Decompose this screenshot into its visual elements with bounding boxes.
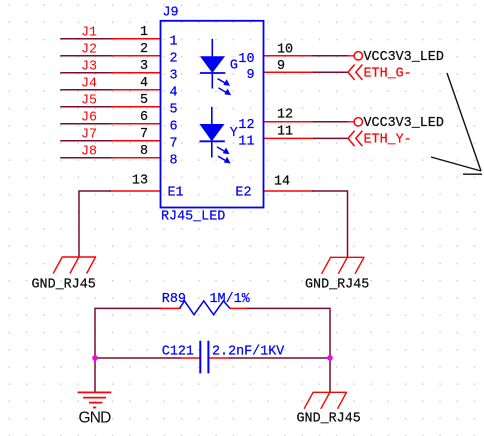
svg-text:12: 12 [238,118,254,133]
svg-text:11: 11 [238,134,254,149]
svg-text:1: 1 [140,25,148,40]
svg-text:8: 8 [170,153,178,168]
svg-text:13: 13 [132,174,148,189]
svg-text:8: 8 [140,144,148,159]
svg-text:E1: E1 [168,186,184,201]
svg-text:J1: J1 [81,26,97,41]
svg-text:4: 4 [170,85,178,100]
svg-text:7: 7 [140,127,148,142]
svg-text:ETH_Y-: ETH_Y- [364,133,412,148]
svg-text:GND_RJ45: GND_RJ45 [32,277,96,292]
svg-text:5: 5 [140,93,148,108]
svg-text:GND_RJ45: GND_RJ45 [305,277,369,292]
svg-text:VCC3V3_LED: VCC3V3_LED [364,116,444,131]
svg-text:RJ45_LED: RJ45_LED [161,209,225,224]
svg-text:2: 2 [170,51,178,66]
svg-text:4: 4 [140,76,148,91]
svg-text:9: 9 [246,68,254,83]
svg-text:E2: E2 [235,186,251,201]
svg-text:6: 6 [140,110,148,125]
svg-text:VCC3V3_LED: VCC3V3_LED [364,50,444,65]
svg-text:9: 9 [277,59,285,74]
svg-text:2.2nF/1KV: 2.2nF/1KV [212,345,284,360]
svg-text:2: 2 [140,42,148,57]
svg-text:14: 14 [274,175,290,190]
svg-text:6: 6 [170,119,178,134]
svg-text:J7: J7 [81,128,97,143]
svg-text:C121: C121 [162,345,194,360]
svg-text:1: 1 [170,34,178,49]
svg-text:10: 10 [238,52,254,67]
svg-text:J2: J2 [81,43,97,58]
svg-text:J4: J4 [81,77,97,92]
svg-text:GND: GND [79,409,112,426]
svg-text:7: 7 [170,136,178,151]
svg-text:G: G [230,58,238,73]
svg-text:5: 5 [170,102,178,117]
svg-text:J6: J6 [81,111,97,126]
svg-text:J8: J8 [81,145,97,160]
svg-text:10: 10 [277,42,293,57]
svg-text:J5: J5 [81,94,97,109]
svg-text:Y: Y [230,126,238,141]
svg-text:J3: J3 [81,60,97,75]
svg-text:J9: J9 [163,6,179,21]
svg-text:GND_RJ45: GND_RJ45 [297,412,361,427]
svg-text:3: 3 [140,59,148,74]
svg-text:11: 11 [277,125,293,140]
svg-text:ETH_G-: ETH_G- [364,67,412,82]
svg-text:1M/1%: 1M/1% [210,292,251,307]
svg-text:R89: R89 [162,292,186,307]
svg-text:12: 12 [277,108,293,123]
svg-text:3: 3 [170,68,178,83]
